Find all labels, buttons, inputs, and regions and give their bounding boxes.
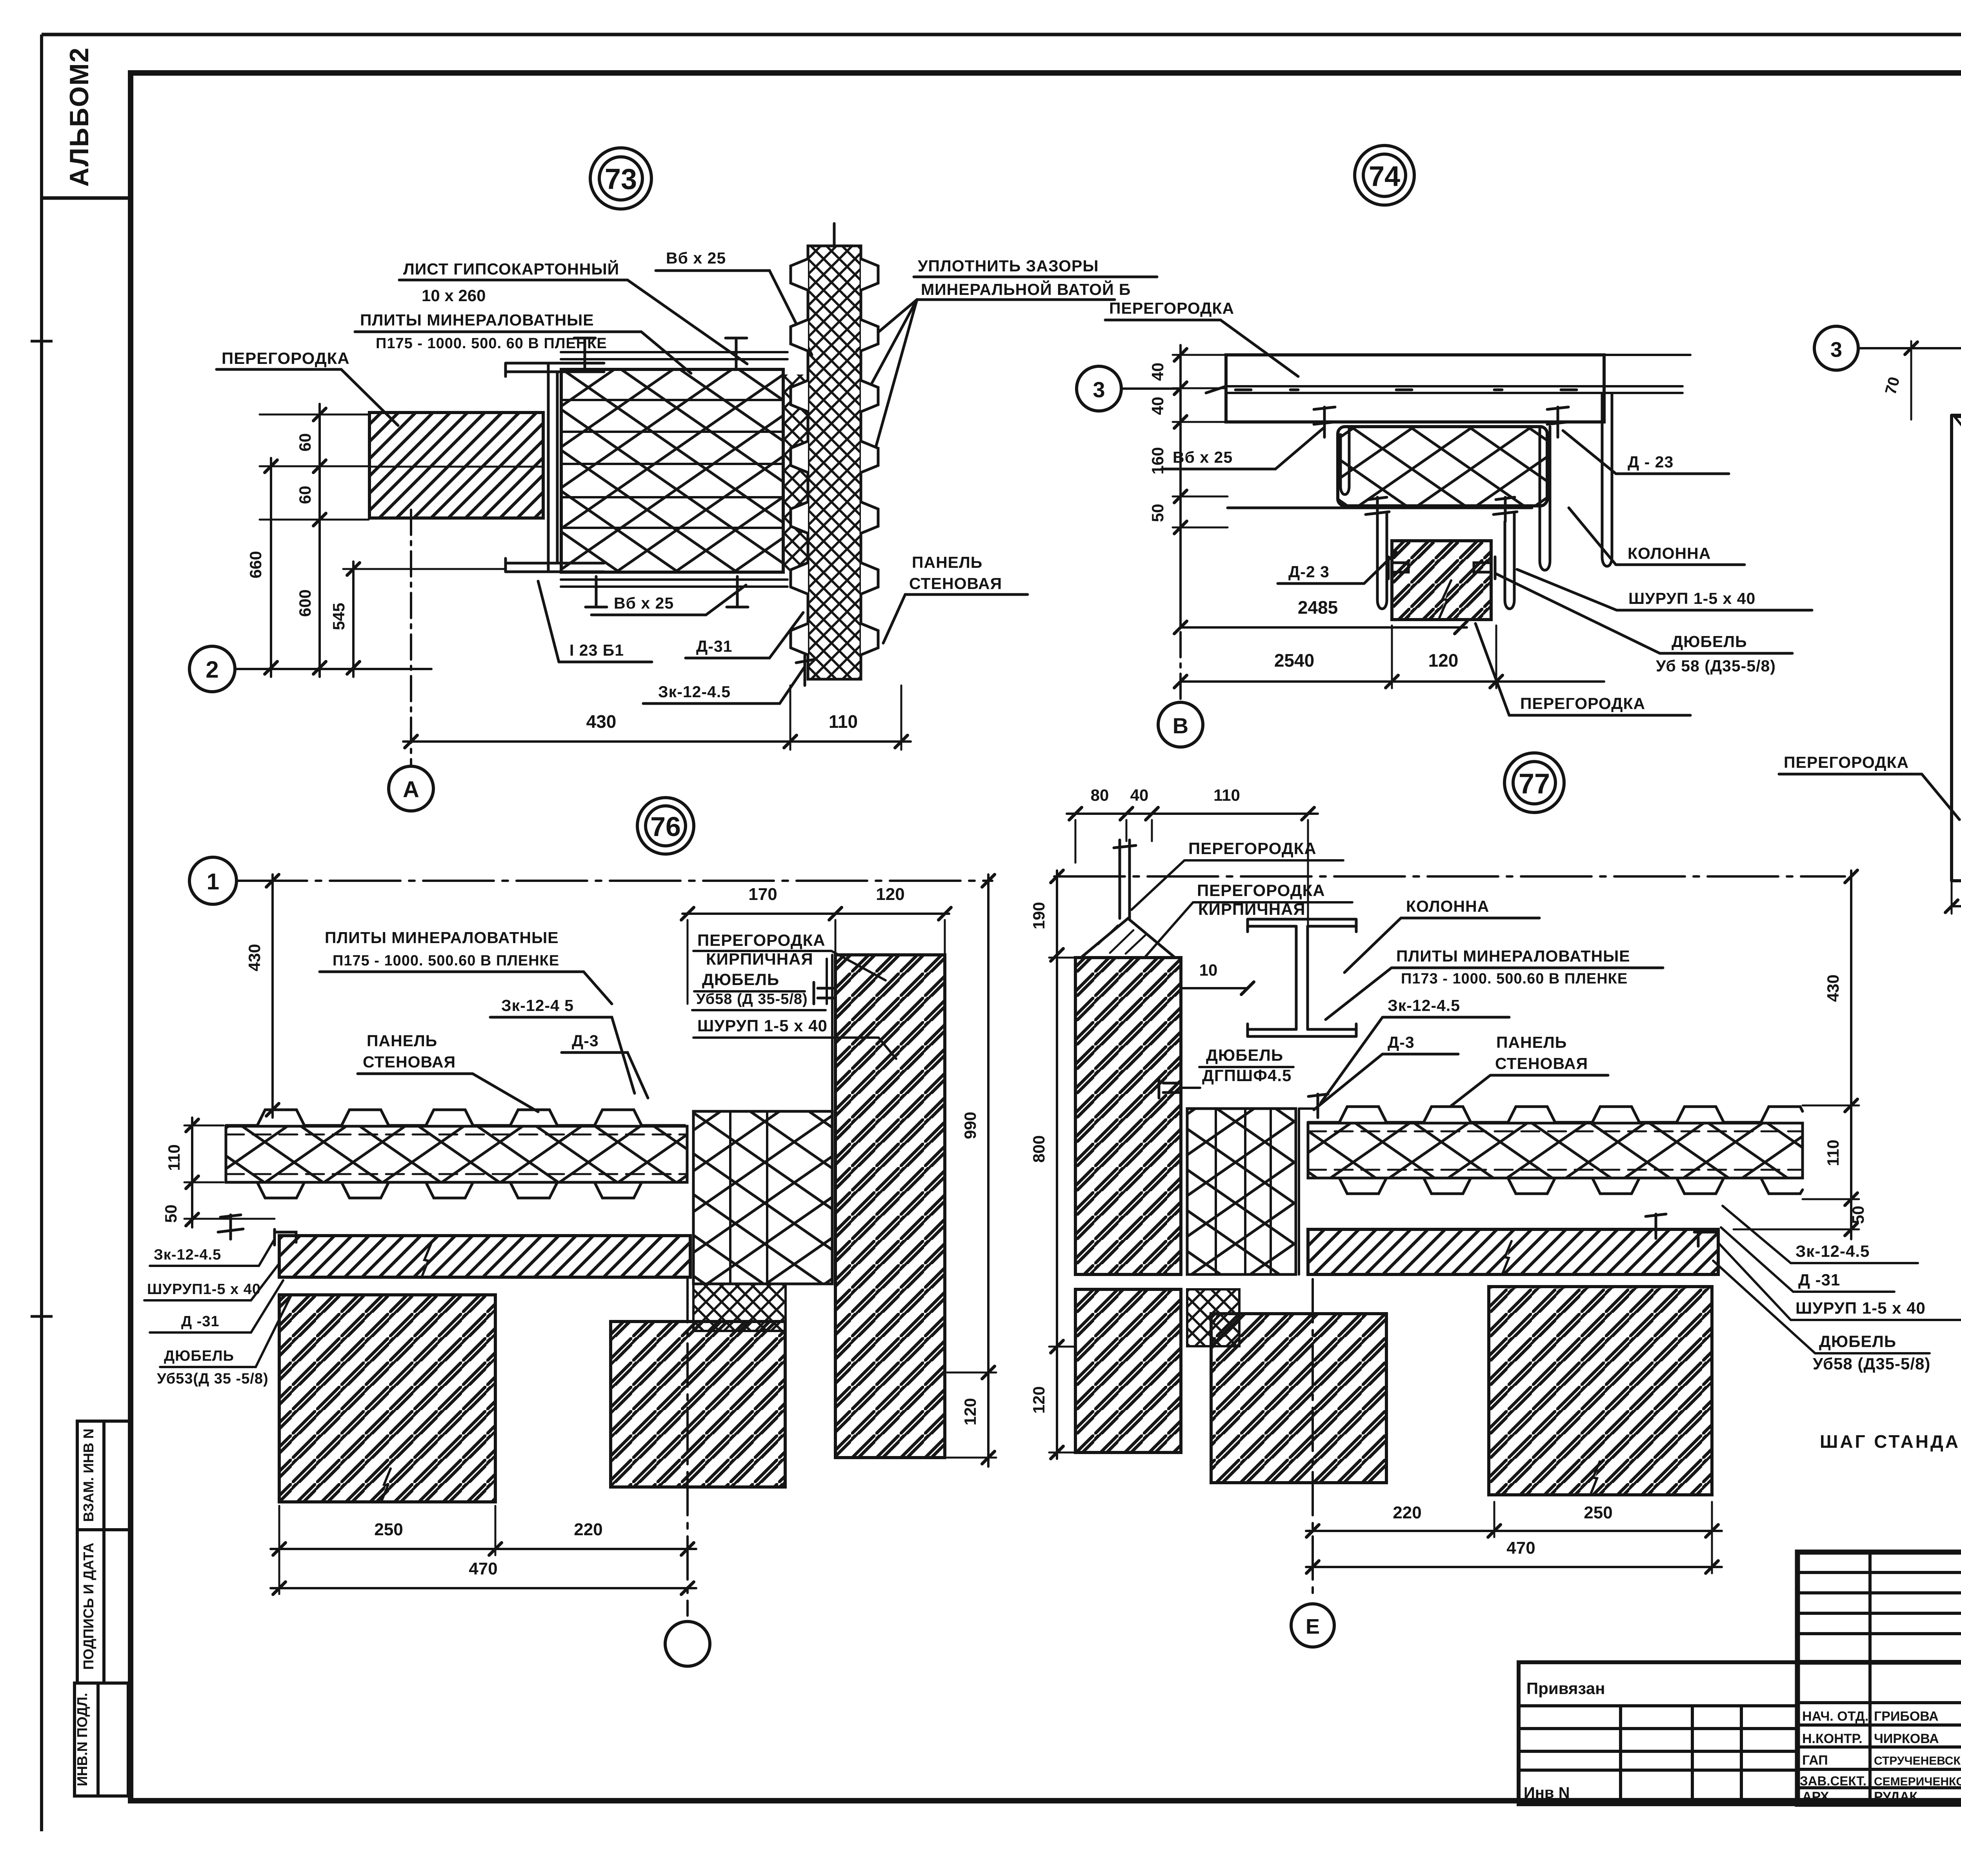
svg-text:СТЕНОВАЯ: СТЕНОВАЯ <box>1495 1054 1588 1073</box>
ext lines right dims <box>1734 1105 1859 1229</box>
middle block with axis <box>1211 1314 1386 1483</box>
sandwich panel bottom ribs <box>1308 1178 1803 1194</box>
svg-text:КОЛОННА: КОЛОННА <box>1406 897 1489 915</box>
svg-text:600: 600 <box>296 589 314 617</box>
step under partition right <box>835 1456 945 1459</box>
svg-text:ПЕРЕГОРОДКА: ПЕРЕГОРОДКА <box>697 931 826 949</box>
horizontal axis line <box>236 880 992 882</box>
detail marker 77 <box>1504 753 1564 813</box>
svg-text:ПЛИТЫ МИНЕРАЛОВАТНЫЕ: ПЛИТЫ МИНЕРАЛОВАТНЫЕ <box>1396 947 1630 965</box>
middle concrete block <box>611 1322 785 1487</box>
screw under slab left <box>1314 407 1335 437</box>
screw right of slab <box>1646 1214 1666 1238</box>
slab top/bottom extension lines right <box>1604 355 1690 393</box>
svg-text:10: 10 <box>1199 961 1218 979</box>
svg-text:ПАНЕЛЬ: ПАНЕЛЬ <box>1496 1033 1567 1051</box>
dim 170/120 top <box>682 913 949 915</box>
svg-text:Д -31: Д -31 <box>181 1313 220 1330</box>
svg-text:77: 77 <box>1519 768 1550 800</box>
svg-text:ПАНЕЛЬ: ПАНЕЛЬ <box>912 553 982 571</box>
svg-text:НАЧ. ОТД.: НАЧ. ОТД. <box>1802 1709 1868 1724</box>
bottom dims 220/250/470 <box>1306 1530 1722 1532</box>
svg-text:74: 74 <box>1369 161 1400 192</box>
svg-text:Д - 23: Д - 23 <box>1628 453 1674 471</box>
svg-text:ПЕРЕГОРОДКА: ПЕРЕГОРОДКА <box>1109 299 1234 317</box>
column flange <box>1602 394 1612 566</box>
right dim 990/120 <box>987 874 990 1467</box>
detail marker 76 <box>637 798 694 854</box>
dowel symbol top <box>814 982 835 1004</box>
dim ext verticals bottom <box>790 685 901 750</box>
svg-text:РУДАК: РУДАК <box>1874 1789 1917 1804</box>
svg-text:ЗАВ.СЕКТ.: ЗАВ.СЕКТ. <box>1800 1774 1866 1788</box>
svg-text:76: 76 <box>650 811 681 842</box>
insulation crosshatch under slab <box>1338 427 1547 506</box>
svg-text:80: 80 <box>1091 786 1109 804</box>
svg-text:П173 - 1000. 500.60 В ПЛЕНКЕ: П173 - 1000. 500.60 В ПЛЕНКЕ <box>1401 971 1628 987</box>
svg-text:ПАНЕЛЬ: ПАНЕЛЬ <box>367 1032 437 1050</box>
big concrete block lower left <box>279 1295 495 1502</box>
insulation layer lines <box>561 400 783 528</box>
svg-text:ГАП: ГАП <box>1802 1753 1828 1768</box>
svg-text:3: 3 <box>1830 338 1842 362</box>
screw on stud top <box>1114 845 1136 848</box>
svg-text:СТЕНОВАЯ: СТЕНОВАЯ <box>363 1053 456 1071</box>
sandwich panel: top ribs <box>226 1110 685 1125</box>
outer border top line <box>42 33 1961 36</box>
fastener mark on panel left edge <box>796 656 813 685</box>
svg-text:ДГПШФ4.5: ДГПШФ4.5 <box>1202 1066 1292 1085</box>
top dim line <box>1858 347 1961 349</box>
svg-text:ПЕРЕГОРОДКА: ПЕРЕГОРОДКА <box>1520 694 1645 713</box>
ext verticals top <box>1911 341 1961 702</box>
axis circle 3 <box>1814 326 1858 370</box>
fold mark upper <box>31 340 53 343</box>
svg-text:3: 3 <box>1093 377 1105 402</box>
lower extension of insulation <box>693 1284 786 1331</box>
ext lines bottom dims <box>279 1506 495 1594</box>
insulation column inner verticals <box>730 1111 767 1284</box>
left lower blocks <box>1075 1289 1181 1452</box>
slab inner lines <box>1226 386 1604 393</box>
screw mid 1 <box>1366 497 1389 522</box>
gap packing <box>783 374 808 571</box>
stamp upper small rows <box>1797 1572 1961 1634</box>
bottom dims 250/220/470 <box>271 1548 696 1550</box>
svg-text:10 х 260: 10 х 260 <box>422 286 486 305</box>
screw left of slab <box>218 1215 243 1239</box>
dowel symbol on column <box>1159 1078 1181 1098</box>
dim line 660 <box>270 458 272 677</box>
svg-text:50: 50 <box>162 1205 180 1223</box>
svg-text:250: 250 <box>1584 1503 1612 1522</box>
sandwich panel bottom ribs <box>226 1182 685 1198</box>
top dims 80/40/110 <box>1067 813 1318 815</box>
svg-text:73: 73 <box>605 163 637 195</box>
svg-text:Зк-12-4.5: Зк-12-4.5 <box>658 683 731 701</box>
axis circle B <box>1158 702 1203 747</box>
dim 10 <box>1181 987 1248 989</box>
axis line to E <box>1312 1279 1314 1600</box>
axis circle 1 <box>189 857 236 904</box>
dim line 545 <box>352 562 355 677</box>
svg-text:ВЗАМ. ИНВ N: ВЗАМ. ИНВ N <box>80 1429 96 1522</box>
ext lines left dims <box>1049 958 1075 1452</box>
svg-text:В: В <box>1173 713 1188 738</box>
svg-text:220: 220 <box>1393 1503 1421 1522</box>
svg-text:ДЮБЕЛЬ: ДЮБЕЛЬ <box>1672 633 1747 651</box>
axis circle A <box>389 766 433 811</box>
dim 50 left <box>191 1190 193 1227</box>
svg-text:545: 545 <box>329 603 348 630</box>
block break mark <box>381 1469 391 1502</box>
brick partition column right <box>835 955 945 1458</box>
svg-text:Зк-12-4 5: Зк-12-4 5 <box>501 996 574 1014</box>
slab left arrow break <box>1206 386 1226 393</box>
bottom dim 80/150 <box>1952 905 1961 907</box>
svg-text:430: 430 <box>586 711 617 732</box>
stamp left grid verticals <box>1870 1552 1961 1804</box>
gypsum strips bottom <box>561 580 788 587</box>
outer border left line <box>40 35 43 1831</box>
angle bracket at slab left <box>275 1229 296 1245</box>
slab break marks <box>422 1244 431 1277</box>
svg-text:170: 170 <box>748 885 777 904</box>
channel right angle <box>1540 427 1550 570</box>
svg-text:ШУРУП 1-5 х 40: ШУРУП 1-5 х 40 <box>1795 1299 1926 1317</box>
svg-text:250: 250 <box>374 1520 403 1539</box>
svg-text:Инв N: Инв N <box>1524 1784 1570 1801</box>
svg-text:40: 40 <box>1148 363 1167 381</box>
insulation crosshatch block <box>561 369 783 572</box>
axis circle 2 <box>189 646 235 692</box>
detail marker 73 <box>590 148 651 209</box>
album cell divider <box>42 196 131 200</box>
svg-text:ИНВ.N ПОДЛ.: ИНВ.N ПОДЛ. <box>74 1693 90 1786</box>
dim vertical 160/50 <box>1179 431 1182 627</box>
svg-text:Д -31: Д -31 <box>1798 1271 1840 1289</box>
svg-text:ШАГ СТАНДАРТНЫХ ИЗДЕЛИЙ 300: ШАГ СТАНДАРТНЫХ ИЗДЕЛИЙ 300 мм <box>1820 1431 1961 1452</box>
screw at panel left end <box>1308 1094 1328 1118</box>
partition slab outline <box>1226 355 1604 422</box>
svg-text:190: 190 <box>1030 902 1048 929</box>
wall partition vertical <box>1952 415 1961 881</box>
svg-text:40: 40 <box>1130 786 1149 804</box>
floor slab hatched <box>279 1236 690 1277</box>
svg-text:ПОДПИСЬ И ДАТА: ПОДПИСЬ И ДАТА <box>80 1543 96 1670</box>
dim 2540/120 <box>1181 680 1604 683</box>
floor slab <box>1308 1229 1718 1274</box>
svg-text:П175 - 1000. 500. 60 В ПЛЕНКЕ: П175 - 1000. 500. 60 В ПЛЕНКЕ <box>376 335 607 352</box>
dim 110 left <box>191 1118 193 1190</box>
svg-text:110: 110 <box>165 1144 183 1171</box>
svg-text:470: 470 <box>469 1559 497 1578</box>
ext verticals for 120 <box>1392 625 1496 688</box>
svg-text:ЧИРКОВА: ЧИРКОВА <box>1874 1731 1939 1746</box>
stud channel top flange <box>506 363 604 376</box>
ext line at 1266/1345 <box>1173 496 1228 527</box>
svg-text:ДЮБЕЛЬ: ДЮБЕЛЬ <box>164 1348 234 1364</box>
fold mark lower <box>31 1315 53 1318</box>
axis line from 2 <box>235 668 431 670</box>
svg-text:990: 990 <box>961 1112 979 1139</box>
dowel right <box>1474 557 1495 579</box>
stamp main horizontals <box>1797 1660 1961 1665</box>
axis line bottom circle <box>686 1279 689 1616</box>
svg-text:Вб х 25: Вб х 25 <box>614 594 674 612</box>
stud channel bottom flange <box>506 558 604 572</box>
svg-text:Д-31: Д-31 <box>696 637 732 655</box>
axis circle E <box>1291 1604 1334 1647</box>
axis circle 3 <box>1077 366 1121 411</box>
left dims 190/800/120 <box>1056 871 1058 1459</box>
svg-text:430: 430 <box>245 944 264 971</box>
svg-text:СТРУЧЕНЕВСКИЙ: СТРУЧЕНЕВСКИЙ <box>1874 1754 1961 1767</box>
svg-text:ПЛИТЫ МИНЕРАЛОВАТНЫЕ: ПЛИТЫ МИНЕРАЛОВАТНЫЕ <box>325 929 559 947</box>
svg-text:КИРПИЧНАЯ: КИРПИЧНАЯ <box>706 950 813 968</box>
svg-text:Зк-12-4.5: Зк-12-4.5 <box>1388 996 1460 1014</box>
partition hatched block <box>369 413 543 518</box>
svg-text:Д-3: Д-3 <box>572 1032 599 1050</box>
svg-text:120: 120 <box>1030 1386 1048 1414</box>
svg-text:ЛИСТ ГИПСОКАРТОННЫЙ: ЛИСТ ГИПСОКАРТОННЫЙ <box>403 260 619 278</box>
svg-text:660: 660 <box>246 551 265 578</box>
svg-text:Вб х 25: Вб х 25 <box>666 249 726 267</box>
screw under slab right <box>1547 407 1568 437</box>
svg-text:ПЕРЕГОРОДКА: ПЕРЕГОРОДКА <box>1197 881 1325 900</box>
svg-text:МИНЕРАЛЬНОЙ ВАТОЙ Б: МИНЕРАЛЬНОЙ ВАТОЙ Б <box>921 280 1131 298</box>
svg-text:ДЮБЕЛЬ: ДЮБЕЛЬ <box>702 970 779 989</box>
svg-text:Зк-12-4.5: Зк-12-4.5 <box>1795 1242 1870 1260</box>
svg-text:800: 800 <box>1030 1135 1048 1163</box>
tall brick column <box>1075 958 1181 1274</box>
bottom dim line 430/110 <box>403 740 911 743</box>
svg-text:60: 60 <box>296 486 314 504</box>
svg-text:40: 40 <box>1148 397 1167 415</box>
svg-text:ШУРУП 1-5 х 40: ШУРУП 1-5 х 40 <box>697 1016 828 1035</box>
sandwich panel core <box>226 1126 687 1182</box>
svg-text:ПЛИТЫ МИНЕРАЛОВАТНЫЕ: ПЛИТЫ МИНЕРАЛОВАТНЫЕ <box>360 311 594 329</box>
svg-text:Д-2 3: Д-2 3 <box>1288 563 1330 581</box>
dim 430 vertical <box>271 874 274 1118</box>
box VZAM INV N <box>77 1421 131 1530</box>
svg-text:АРХ.: АРХ. <box>1802 1789 1833 1804</box>
svg-text:2485: 2485 <box>1298 597 1338 618</box>
screw mid 2 <box>1493 497 1517 522</box>
sandwich panel dashed skins <box>226 1134 687 1136</box>
screw bottom 2 <box>727 576 748 607</box>
svg-text:430: 430 <box>1824 974 1842 1002</box>
svg-text:ГРИБОВА: ГРИБОВА <box>1874 1709 1939 1724</box>
ext verticals bottom <box>1952 882 1961 914</box>
box PODPIS I DATA <box>77 1530 131 1683</box>
svg-text:П175 - 1000. 500.60 В ПЛЕНКЕ: П175 - 1000. 500.60 В ПЛЕНКЕ <box>333 953 559 969</box>
dim ext lines left <box>260 414 506 569</box>
svg-text:2540: 2540 <box>1274 650 1314 671</box>
svg-text:УПЛОТНИТЬ ЗАЗОРЫ: УПЛОТНИТЬ ЗАЗОРЫ <box>918 257 1099 275</box>
svg-text:470: 470 <box>1506 1538 1535 1558</box>
wall panel top tick <box>833 224 836 247</box>
ext lines bottom <box>1494 1502 1712 1573</box>
svg-text:110: 110 <box>1213 786 1240 804</box>
big concrete block lower right <box>1489 1287 1712 1495</box>
brick partition break mark <box>1439 580 1451 620</box>
svg-text:2: 2 <box>206 656 218 683</box>
stud channel web <box>548 363 557 572</box>
svg-text:120: 120 <box>1428 650 1459 671</box>
dim line 600 <box>318 529 321 677</box>
angle bracket at slab right <box>1694 1229 1718 1246</box>
partition mid line <box>369 466 543 468</box>
svg-text:СТЕНОВАЯ: СТЕНОВАЯ <box>909 574 1002 593</box>
svg-text:Д-3: Д-3 <box>1388 1033 1415 1051</box>
svg-text:ПЕРЕГОРОДКА: ПЕРЕГОРОДКА <box>1784 753 1909 771</box>
ext verticals top <box>1075 820 1308 988</box>
insulation column <box>1187 1109 1296 1274</box>
svg-text:ШУРУП 1-5 х 40: ШУРУП 1-5 х 40 <box>1628 589 1755 607</box>
panel dashed skins <box>1308 1131 1803 1133</box>
dowel left <box>1388 557 1408 579</box>
svg-text:Уб 58 (Д35-5/8): Уб 58 (Д35-5/8) <box>1656 657 1776 675</box>
svg-text:110: 110 <box>829 711 858 732</box>
svg-text:А: А <box>403 777 419 802</box>
screw top 2 <box>726 338 747 368</box>
screw bottom 1 <box>586 576 607 607</box>
svg-text:ПЕРЕГОРОДКА: ПЕРЕГОРОДКА <box>1188 839 1317 858</box>
partition trim lines <box>827 955 832 1284</box>
wall panel ribs right <box>861 259 878 655</box>
svg-text:Н.КОНТР.: Н.КОНТР. <box>1802 1731 1863 1746</box>
detail marker 74 <box>1355 145 1414 205</box>
svg-text:ДЮБЕЛЬ: ДЮБЕЛЬ <box>1819 1332 1896 1351</box>
second leg left <box>1377 513 1387 609</box>
horizontal line under insulation <box>1228 507 1532 509</box>
horizontal axis line <box>1054 875 1845 878</box>
svg-text:ШУРУП1-5 х 40: ШУРУП1-5 х 40 <box>147 1281 261 1298</box>
svg-text:ПЕРЕГОРОДКА: ПЕРЕГОРОДКА <box>222 349 350 367</box>
axis circle bottom (blank) <box>665 1622 710 1666</box>
vertical insulation column <box>693 1111 832 1284</box>
svg-text:50: 50 <box>1148 504 1167 522</box>
svg-text:Зк-12-4.5: Зк-12-4.5 <box>154 1247 221 1263</box>
panel trim at insulation right <box>1299 1109 1314 1274</box>
bottom line under left blocks <box>1075 1451 1181 1454</box>
wood triangle on column top <box>1081 918 1175 958</box>
ext lines left <box>184 1125 275 1219</box>
svg-text:КОЛОННА: КОЛОННА <box>1628 544 1711 562</box>
svg-text:110: 110 <box>1824 1140 1842 1166</box>
second leg right <box>1505 513 1514 609</box>
stamp outer rect <box>1797 1552 1961 1804</box>
svg-text:Привязан: Привязан <box>1526 1679 1605 1698</box>
svg-text:I 23 Б1: I 23 Б1 <box>569 641 624 659</box>
screw top 1 <box>574 338 595 368</box>
wall panel core <box>808 246 861 679</box>
svg-text:СЕМЕРИЧЕНКО: СЕМЕРИЧЕНКО <box>1874 1775 1961 1788</box>
svg-text:АЛЬБОМ2: АЛЬБОМ2 <box>64 47 94 187</box>
wood triangle top <box>1955 417 1961 455</box>
svg-text:220: 220 <box>574 1520 602 1539</box>
sandwich panel core <box>1308 1123 1803 1178</box>
upper partition studs <box>1120 840 1130 918</box>
svg-text:Уб53(Д 35 -5/8): Уб53(Д 35 -5/8) <box>157 1371 269 1387</box>
svg-text:ДЮБЕЛЬ: ДЮБЕЛЬ <box>1206 1046 1283 1064</box>
svg-text:160: 160 <box>1148 447 1167 474</box>
svg-text:Уб58 (Д35-5/8): Уб58 (Д35-5/8) <box>1813 1354 1930 1373</box>
svg-text:1: 1 <box>207 869 219 894</box>
ext lines 40/40 <box>1173 355 1226 422</box>
svg-text:120: 120 <box>876 885 904 904</box>
dim vertical 40/40 <box>1179 345 1182 431</box>
I-beam column section <box>1248 919 1356 932</box>
svg-text:Уб58 (Д 35-5/8): Уб58 (Д 35-5/8) <box>696 991 808 1007</box>
dim 2485 <box>1181 626 1467 629</box>
svg-text:50: 50 <box>1849 1206 1867 1224</box>
name rows <box>1797 1703 1961 1788</box>
wall panel ribs left <box>791 259 808 655</box>
vertical axis line A <box>410 510 412 765</box>
box INV N PODL <box>75 1683 128 1796</box>
sandwich panel: top ribs <box>1308 1107 1803 1122</box>
dim line 60/60 <box>318 404 321 529</box>
svg-text:60: 60 <box>296 433 314 452</box>
axis line to B <box>1179 549 1182 702</box>
right dims 430/110/50 <box>1850 871 1852 1239</box>
brick partition below <box>1392 541 1491 620</box>
left small table near stamp <box>1519 1662 1797 1804</box>
slab break mark <box>1502 1241 1512 1274</box>
svg-text:120: 120 <box>961 1398 979 1425</box>
svg-text:Е: Е <box>1306 1615 1320 1638</box>
channel left leg <box>1341 427 1349 494</box>
gypsum strips top <box>561 352 788 359</box>
